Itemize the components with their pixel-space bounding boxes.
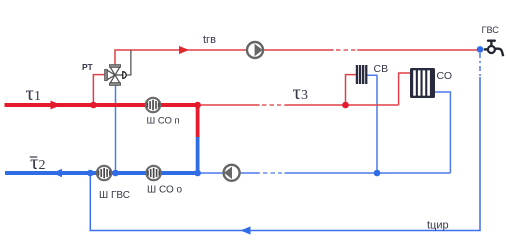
svg-text:τ2: τ2 <box>30 150 45 174</box>
wire: return thin blue after pump solid <box>240 172 259 174</box>
svg-text:СВ: СВ <box>374 63 389 75</box>
wire: GVS circulation vertical dash-dot part <box>479 53 481 77</box>
svg-text:τ1: τ1 <box>26 81 41 105</box>
wire: return thin blue from bypass to pump <box>200 172 223 174</box>
arrow on tcir line pointing left <box>241 226 251 234</box>
wire: blue vertical CB outlet down to return <box>367 75 377 173</box>
arrow on T1 pointing right <box>51 101 62 110</box>
wire: red riser from T1 junction up to valve inlet <box>93 75 106 105</box>
svg-text:τ3: τ3 <box>293 80 308 104</box>
wire: tgv line after pump, solid part <box>264 49 334 51</box>
orifice Sh_CO_p on T1 <box>146 98 160 112</box>
valve RT (3-way mixing valve) <box>105 65 127 86</box>
node: junction dot T2/tcir downcomer <box>87 170 94 177</box>
wire: return solid to CO downcomer <box>285 172 451 174</box>
node: junction dot at GVS tap <box>477 46 484 53</box>
wire: T2 thick blue return main <box>5 171 200 175</box>
wire: T3 thin red line solid after junction <box>198 104 260 106</box>
wire: red from valve top up to tgv line <box>115 50 247 66</box>
wire: tgv line to GVS tap dot <box>357 49 478 51</box>
wire: T1 thick red supply main <box>5 103 200 107</box>
wire: T3 dash-dot break <box>262 104 281 106</box>
pump P1 on tgv line <box>247 42 263 58</box>
arrow on tgv line pointing right <box>179 46 189 54</box>
svg-text:РТ: РТ <box>82 62 94 72</box>
wire: red riser from T3 to CB heater <box>346 75 357 105</box>
node: junction dot return/CB downcomer <box>374 170 381 177</box>
svg-text:Ш СО о: Ш СО о <box>147 185 183 196</box>
svg-text:СО: СО <box>437 70 453 82</box>
wire: tgv line dash-dot break <box>336 49 356 51</box>
svg-text:Ш СО п: Ш СО п <box>147 116 180 127</box>
svg-text:tцир: tцир <box>427 220 449 232</box>
node: junction dot T2/valve bypass <box>112 170 119 177</box>
arrow on T2 pointing left <box>53 169 63 177</box>
wire: bypass vertical blue lower half (thick) <box>196 137 200 173</box>
faucet GVS tap <box>484 41 503 57</box>
svg-text:ГВС: ГВС <box>482 25 500 35</box>
wire: blue vertical from valve bottom to return line <box>115 83 117 173</box>
node: junction dot T1/bypass <box>194 102 201 109</box>
orifice Sh_GVS on T2 <box>97 166 111 180</box>
orifice Sh_CO_o on T2 <box>146 166 160 180</box>
radiator CO <box>410 68 435 98</box>
node: junction dot on T1 at riser to valve <box>90 102 97 109</box>
sensor line from tgv to valve actuator <box>127 50 131 75</box>
wire: red riser from T3 to CO radiator <box>399 73 410 105</box>
wire: blue CO outlet right and down to return <box>435 92 450 173</box>
wire: bypass vertical red upper half (thick) <box>196 103 200 137</box>
svg-text:Ш ГВС: Ш ГВС <box>99 190 130 201</box>
pump P2 on return line <box>224 165 240 181</box>
node: junction dot T2/bypass <box>194 170 201 177</box>
wire: return dash-dot break <box>263 172 282 174</box>
wire: GVS circulation vertical solid down to tcir corner <box>90 77 480 231</box>
node: junction dot T3/CB riser <box>342 102 349 109</box>
wire: T3 solid to CO riser <box>284 104 398 106</box>
heater CB (ventilation coil) <box>356 65 368 84</box>
svg-text:tгв: tгв <box>203 34 216 46</box>
